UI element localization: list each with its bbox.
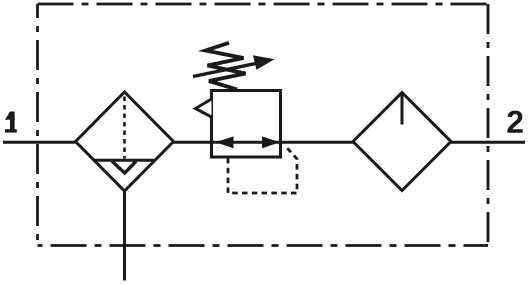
- filter element (dashed centre line): [123, 97, 126, 159]
- wire: dryer outlet to port 2: [450, 141, 525, 144]
- wire: regulator outlet to dryer inlet: [280, 141, 354, 144]
- pilot feedback line (dashed): [228, 145, 297, 193]
- enclosure border (dash-dot assembly box): [38, 4, 489, 246]
- adjustment arrowhead: [253, 55, 275, 70]
- water separator collector V: [112, 161, 136, 173]
- port 2 label: [507, 111, 522, 133]
- regulator setting spring: [206, 43, 246, 90]
- wire: port 1 to filter inlet: [3, 141, 77, 144]
- regulator R1 body (square): [212, 91, 281, 158]
- regulator flow arrowhead right: [262, 136, 280, 148]
- adjustment arrow shaft: [193, 63, 258, 77]
- filter F1 body (diamond): [76, 92, 174, 191]
- water separator baffle line: [94, 159, 155, 162]
- regulator flow arrowhead left: [216, 136, 234, 148]
- wire: filter outlet to regulator inlet: [172, 141, 212, 144]
- relieving vent triangle: [196, 99, 212, 117]
- dryer element stub line: [401, 94, 404, 125]
- condensate drain line: [123, 190, 126, 281]
- dryer D1 body (diamond): [353, 93, 451, 191]
- regulator flow path line: [212, 141, 280, 144]
- port 1 label: [5, 112, 17, 133]
